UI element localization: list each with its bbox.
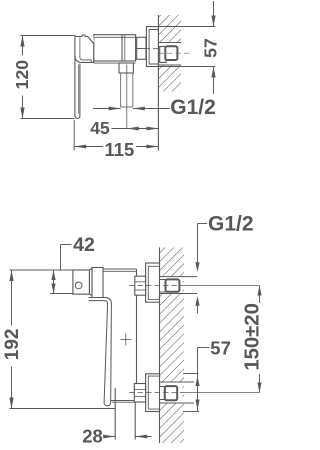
flange bottom ext line 57 lower bbox=[158, 66, 215, 68]
escutcheon flange bbox=[146, 27, 158, 67]
svg-text:G1/2: G1/2 bbox=[208, 213, 254, 236]
G1/2 arrows bbox=[109, 107, 121, 111]
flange top ext line 57 upper bbox=[158, 26, 215, 28]
dim 120 line bbox=[22, 36, 24, 56]
dim 42 ext bottom bbox=[50, 293, 73, 295]
wall hatch bottom figure bbox=[160, 248, 185, 444]
connection nut bbox=[137, 37, 146, 59]
handle bottom flange inner line bbox=[80, 57, 92, 63]
channel top edge bbox=[158, 42, 181, 44]
dim 57 bottom leader bbox=[198, 347, 210, 349]
svg-text:115: 115 bbox=[104, 139, 134, 160]
body bottom edge bbox=[111, 400, 137, 402]
upper channel edges bbox=[160, 276, 198, 278]
cartridge main section bbox=[92, 268, 103, 299]
dim 57 exts bbox=[183, 373, 199, 375]
handle cap outline bbox=[75, 35, 94, 43]
svg-text:57: 57 bbox=[210, 338, 231, 359]
dim 45 line bbox=[111, 128, 158, 130]
dim 192 arrows bbox=[9, 270, 13, 281]
cap right edge / body left edge bbox=[93, 44, 95, 64]
wall hatch top figure bbox=[158, 15, 181, 92]
dim 115 arrows bbox=[74, 145, 86, 149]
handle bottom flange outer arc bbox=[75, 55, 94, 62]
outlet pipe bbox=[120, 73, 122, 107]
lever bar bbox=[75, 37, 80, 119]
dim 57 arrows bbox=[211, 16, 215, 27]
G1/2 leader bottom bbox=[198, 223, 208, 225]
wall pipe channel (white) bbox=[158, 43, 181, 66]
lever bbox=[89, 298, 112, 406]
dim 120 ext top bbox=[21, 35, 76, 37]
wall face line bbox=[159, 247, 161, 443]
cartridge top edge extension to body bbox=[103, 268, 137, 270]
dim 57 bottom line bbox=[213, 67, 215, 95]
handle cap front face line bbox=[79, 38, 81, 57]
svg-text:192: 192 bbox=[2, 329, 23, 361]
in-wall collar bbox=[160, 47, 166, 63]
upper supply centerline bbox=[129, 285, 182, 287]
pipe centerline dashes before wall bbox=[136, 48, 158, 50]
svg-text:G1/2: G1/2 bbox=[170, 96, 216, 119]
lower supply centerline bbox=[129, 392, 182, 394]
lower fitting: flange inner lines bbox=[148, 376, 159, 409]
dim 120 ext bottom bbox=[21, 118, 75, 120]
lower fitting: flange bbox=[146, 374, 160, 412]
dim 57 bottom arrows bbox=[195, 376, 199, 386]
body inner top line bbox=[94, 36, 136, 38]
cartridge joint double line bbox=[121, 35, 123, 61]
dim 115 ext left bbox=[73, 120, 75, 151]
dim 42 arrows bbox=[51, 270, 55, 280]
outlet nut bbox=[119, 63, 133, 73]
dim 45 arrows bbox=[127, 127, 139, 131]
G1/2 bottom arrows bbox=[195, 262, 199, 272]
lower channel edges bbox=[160, 381, 195, 383]
channel white upper bbox=[160, 277, 183, 294]
in-wall union box bbox=[165, 46, 177, 60]
lower fitting: union box bbox=[165, 386, 177, 400]
body bottom second line bbox=[94, 62, 119, 64]
upper fitting: collar in wall bbox=[160, 280, 166, 293]
svg-text:57: 57 bbox=[201, 38, 221, 58]
G1/2 leader line bbox=[93, 108, 121, 110]
body bbox=[94, 35, 136, 61]
cartridge cap bbox=[73, 270, 90, 294]
dim 28 arrows bbox=[103, 435, 115, 439]
svg-text:42: 42 bbox=[73, 234, 95, 256]
channel white lower bbox=[160, 382, 183, 403]
body right edge bbox=[136, 269, 138, 384]
wall face line bbox=[157, 15, 159, 151]
lever inner double line bbox=[78, 65, 80, 114]
dim 192 line bbox=[11, 270, 13, 326]
escutcheon flange inner lines bbox=[149, 30, 158, 65]
svg-text:45: 45 bbox=[90, 118, 110, 138]
dim 150 line bbox=[259, 286, 261, 304]
upper fitting: nut bbox=[135, 276, 146, 295]
channel bottom edge bbox=[158, 64, 181, 66]
dim 28 line bbox=[104, 436, 116, 438]
body bottom second line bbox=[112, 401, 135, 403]
dim 57 top line bbox=[213, 1, 215, 27]
nut facet line bbox=[137, 48, 146, 50]
outlet centerline bbox=[126, 65, 128, 130]
dim 42 arrow line bbox=[53, 270, 55, 294]
dim 192 ext bottom bbox=[10, 408, 116, 410]
lower fitting: collar in wall bbox=[160, 387, 165, 400]
svg-text:120: 120 bbox=[12, 60, 32, 90]
dim 42 leader bbox=[61, 244, 72, 246]
cartridge cap circle bbox=[75, 282, 82, 289]
svg-text:28: 28 bbox=[82, 426, 103, 447]
outlet tube bbox=[114, 388, 116, 440]
dim 120 arrows bbox=[20, 36, 24, 47]
body centerline cross bbox=[121, 338, 132, 340]
pipe centerline dashes in wall bbox=[158, 52, 190, 54]
dim 150 arrows bbox=[257, 286, 261, 296]
svg-text:150±20: 150±20 bbox=[241, 303, 263, 371]
cartridge collar bbox=[89, 269, 92, 296]
lower fitting: nut bbox=[134, 384, 145, 403]
dim 115 line bbox=[74, 146, 103, 148]
upper fitting: union box bbox=[166, 279, 180, 291]
dim 192 ext top bbox=[10, 269, 73, 271]
outlet pipe end bbox=[121, 106, 133, 108]
handle white mask bbox=[75, 36, 94, 118]
upper fitting: flange inner lines bbox=[148, 266, 159, 299]
upper fitting: flange bbox=[146, 263, 160, 302]
